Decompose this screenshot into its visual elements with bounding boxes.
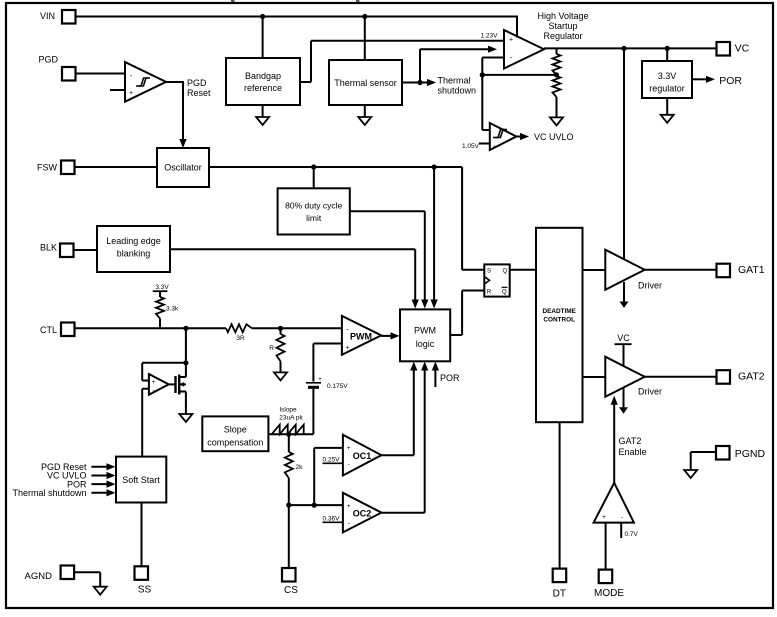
- svg-text:Driver: Driver: [638, 387, 662, 397]
- pin MODE: [594, 570, 624, 599]
- wire 80pct to PWM logic: [350, 211, 429, 308]
- label 2k: [296, 464, 304, 471]
- svg-text:GAT2: GAT2: [619, 436, 642, 446]
- svg-text:80% duty cycle: 80% duty cycle: [285, 201, 342, 211]
- svg-text:-: -: [621, 514, 623, 521]
- svg-text:VC: VC: [735, 42, 750, 54]
- svg-text:Reset: Reset: [187, 88, 211, 98]
- svg-text:Q: Q: [502, 290, 507, 296]
- node R junction: [278, 326, 283, 331]
- svg-text:regulator: regulator: [649, 84, 685, 94]
- wire thermal to regulator input: [420, 46, 497, 83]
- wire VC UVLO output: [516, 133, 529, 140]
- svg-text:2k: 2k: [296, 464, 304, 471]
- label GAT2 Enable: [619, 436, 647, 457]
- block Oscillator: [157, 148, 209, 187]
- wire PWM logic output to latch R: [450, 291, 484, 336]
- svg-text:VIN: VIN: [40, 11, 55, 21]
- svg-text:Islope: Islope: [279, 407, 297, 414]
- resistor 2k: [285, 434, 293, 505]
- svg-text:MODE: MODE: [594, 588, 624, 599]
- svg-text:3.3V: 3.3V: [658, 71, 677, 81]
- ground below driver1: [620, 282, 629, 308]
- pin AGND: [25, 566, 75, 583]
- label POR: [719, 75, 742, 87]
- wire DT line: [559, 422, 561, 568]
- block DEADTIME CONTROL: [536, 228, 583, 422]
- flip-flop SR latch: [484, 264, 509, 296]
- wire FSW to oscillator: [75, 166, 158, 168]
- svg-text:R: R: [269, 345, 274, 352]
- ground below divider: [550, 117, 563, 125]
- block 80% duty cycle limit: [278, 188, 350, 234]
- label High Voltage Startup Regulator: [537, 11, 588, 41]
- wire PGD comparator reference stub: [110, 89, 125, 91]
- ground below driver2: [619, 388, 628, 414]
- svg-text:+: +: [509, 37, 513, 44]
- label PGD Reset input: [41, 462, 116, 472]
- svg-text:Q: Q: [502, 269, 507, 275]
- wire VIN rail: [76, 16, 518, 38]
- wire PGD Reset: [166, 81, 187, 148]
- wire BLK to blanking: [74, 249, 98, 251]
- amplifier driver2: [605, 357, 644, 397]
- block Leading edge blanking: [97, 226, 170, 272]
- node VC-33reg junction: [665, 46, 670, 51]
- wire deadtime to driver2: [583, 376, 606, 378]
- comparator OC1: [343, 435, 382, 476]
- label 0.36V: [323, 516, 343, 523]
- svg-text:VC UVLO: VC UVLO: [534, 132, 574, 142]
- svg-text:GAT1: GAT1: [738, 264, 765, 276]
- svg-text:SS: SS: [138, 584, 152, 595]
- svg-text:reference: reference: [244, 83, 282, 93]
- pin VIN: [40, 10, 76, 24]
- svg-text:CTL: CTL: [40, 325, 57, 335]
- pin PGND: [716, 446, 765, 460]
- wire latch Q to deadtime: [510, 269, 536, 271]
- wire PWM comparator output: [381, 332, 399, 339]
- wire mosfet drain: [185, 363, 187, 377]
- svg-text:POR: POR: [440, 373, 460, 383]
- svg-text:CONTROL: CONTROL: [543, 317, 575, 324]
- resistor divider upper: [553, 48, 561, 75]
- svg-text:R: R: [487, 290, 492, 296]
- wire regulator output VC rail: [544, 47, 717, 49]
- wire CTL to buffer: [142, 328, 188, 380]
- resistor R: [277, 328, 285, 372]
- wire bandgap 1.23V to regulator: [300, 41, 504, 82]
- wire CS pin line: [288, 505, 290, 568]
- resistor 3.3k: [156, 297, 164, 328]
- ground below R: [274, 372, 287, 380]
- svg-text:23uA pk: 23uA pk: [279, 414, 303, 421]
- svg-text:GAT2: GAT2: [738, 371, 765, 383]
- svg-text:1.23V: 1.23V: [481, 32, 499, 39]
- wire PGND to ground: [684, 452, 716, 478]
- pin BLK: [40, 243, 74, 258]
- svg-text:PWM: PWM: [350, 332, 372, 342]
- wire PGD to comparator: [76, 73, 126, 75]
- label 0.25V: [323, 457, 343, 464]
- svg-text:BLK: BLK: [40, 243, 57, 253]
- label 3.3k: [166, 306, 179, 313]
- svg-text:Slope: Slope: [224, 425, 247, 435]
- svg-text:+: +: [602, 514, 606, 521]
- block 3.3V regulator: [642, 61, 692, 98]
- block Slope compensation: [202, 416, 268, 451]
- label 1.23V: [481, 32, 499, 39]
- node oscillator-pwmlogic junction: [431, 164, 438, 308]
- pin DT: [553, 569, 567, 600]
- pin VC: [717, 42, 750, 56]
- wire OC1 output: [381, 362, 417, 456]
- comparator VC UVLO: [490, 123, 517, 151]
- svg-text:0.25V: 0.25V: [323, 457, 341, 464]
- svg-text:AGND: AGND: [25, 571, 53, 582]
- transistor Q1 mosfet: [176, 375, 186, 395]
- svg-text:High Voltage: High Voltage: [537, 11, 588, 21]
- op-amp buffer: [149, 374, 169, 395]
- node VIN-thermal junction: [362, 14, 367, 60]
- comparator OC2: [343, 493, 382, 533]
- wire POR output: [692, 76, 715, 83]
- svg-text:Bandgap: Bandgap: [245, 71, 281, 81]
- battery 0.175V offset: [306, 377, 322, 434]
- svg-text:Driver: Driver: [638, 281, 662, 291]
- svg-text:Thermal: Thermal: [438, 76, 471, 86]
- node CTL-buffer junction: [183, 326, 188, 331]
- wire VC to driver1: [623, 48, 625, 259]
- pin CTL: [40, 323, 75, 337]
- wire divider to VC UVLO: [482, 75, 490, 130]
- node divider mid: [554, 72, 559, 77]
- svg-text:3.3k: 3.3k: [166, 306, 179, 313]
- node oscillator-80pct junction: [311, 164, 316, 188]
- svg-text:Leading edge: Leading edge: [106, 236, 161, 246]
- svg-text:0.36V: 0.36V: [323, 516, 341, 523]
- comparator U1 PGD hysteresis: [125, 62, 166, 102]
- svg-text:compensation: compensation: [207, 438, 263, 448]
- op-amp HV startup regulator: [504, 30, 544, 69]
- pin GAT1: [717, 264, 765, 278]
- svg-text:3R: 3R: [236, 335, 245, 342]
- svg-text:PGD: PGD: [187, 78, 207, 88]
- label Thermal shutdown: [438, 76, 477, 96]
- svg-text:Oscillator: Oscillator: [164, 163, 202, 173]
- node VIN-bandgap junction: [260, 14, 265, 58]
- label Islope 23uA pk: [279, 407, 303, 422]
- svg-text:+: +: [493, 145, 496, 151]
- svg-text:PGND: PGND: [735, 448, 766, 460]
- wire driver2 to GAT2: [645, 376, 717, 378]
- wire soft start to SS pin: [141, 503, 143, 567]
- ground below thermal sensor: [358, 105, 371, 125]
- wire slope comp output: [268, 433, 313, 435]
- svg-text:POR: POR: [719, 75, 742, 87]
- svg-text:-: -: [348, 462, 350, 469]
- svg-text:+: +: [347, 503, 351, 510]
- svg-text:VC: VC: [617, 333, 630, 343]
- block Soft Start: [116, 457, 166, 503]
- label VC UVLO input: [47, 471, 116, 481]
- block Thermal sensor: [329, 60, 402, 105]
- wire thermal sensor output: [402, 79, 436, 86]
- svg-text:+: +: [345, 345, 349, 352]
- wire oscillator output: [209, 167, 484, 270]
- svg-text:3.3V: 3.3V: [155, 284, 169, 291]
- top crop artifact: [231, 0, 360, 2]
- svg-text:1.05V: 1.05V: [462, 143, 480, 150]
- svg-text:OC1: OC1: [353, 451, 372, 461]
- svg-text:+: +: [347, 445, 351, 452]
- wire CTL line: [75, 327, 227, 329]
- svg-text:+: +: [318, 377, 322, 383]
- ground below 3.3V regulator: [661, 98, 674, 123]
- svg-text:+: +: [152, 380, 156, 386]
- label R: [269, 345, 274, 352]
- wire CS node to OC2: [289, 504, 343, 506]
- wire buffer inverting to soft start: [142, 389, 149, 457]
- resistor divider lower: [553, 76, 561, 117]
- wire MODE pin to comparator: [605, 523, 607, 570]
- svg-text:logic: logic: [416, 339, 435, 349]
- svg-text:0.7V: 0.7V: [625, 531, 639, 538]
- wire divider feedback: [480, 58, 557, 78]
- pin PGD: [38, 54, 75, 80]
- svg-text:blanking: blanking: [117, 249, 151, 259]
- svg-text:Thermal sensor: Thermal sensor: [334, 78, 397, 88]
- sawtooth current source: [272, 425, 304, 435]
- svg-text:limit: limit: [306, 213, 322, 223]
- node CS junction: [286, 503, 291, 508]
- label Driver (GAT2): [638, 387, 662, 397]
- wire driver1 to GAT1: [645, 269, 717, 271]
- wire buffer output to gate: [169, 383, 176, 385]
- label POR input: [67, 479, 116, 489]
- pin FSW: [37, 161, 75, 175]
- node OC1 tap junction: [312, 448, 343, 508]
- label POR input: [432, 362, 460, 388]
- svg-text:Regulator: Regulator: [543, 31, 582, 41]
- supply 3.3V rail: [153, 284, 170, 297]
- svg-text:+: +: [129, 90, 133, 97]
- label Thermal shutdown input: [12, 488, 115, 498]
- wire AGND to ground: [74, 572, 107, 594]
- pin GAT2: [717, 370, 765, 384]
- svg-text:-: -: [153, 388, 155, 394]
- comparator PWM: [342, 316, 381, 355]
- supply VC for driver2: [615, 333, 632, 366]
- label Driver (GAT1): [638, 281, 662, 291]
- svg-text:Soft Start: Soft Start: [122, 475, 160, 485]
- svg-text:CS: CS: [284, 585, 298, 596]
- wire VC to 3.3V regulator: [666, 48, 668, 61]
- comparator MODE: [594, 483, 634, 523]
- svg-text:Enable: Enable: [619, 447, 647, 457]
- svg-text:-: -: [348, 520, 350, 527]
- label 0.7V reference: [621, 523, 638, 538]
- wire blanking to PWM logic: [170, 249, 419, 308]
- amplifier driver1: [605, 250, 644, 290]
- pin CS: [282, 568, 298, 596]
- label 0.175V: [327, 383, 348, 390]
- wire mosfet source to ground: [179, 392, 192, 423]
- label 1.05V: [462, 143, 490, 150]
- ground below bandgap: [256, 105, 269, 125]
- svg-text:OC2: OC2: [353, 509, 372, 519]
- resistor 3R: [226, 324, 252, 342]
- svg-text:Thermal shutdown: Thermal shutdown: [12, 488, 86, 498]
- label PGD Reset: [187, 78, 211, 98]
- wire OC2 output: [381, 362, 428, 513]
- svg-text:shutdown: shutdown: [438, 86, 477, 96]
- svg-text:DT: DT: [553, 588, 566, 599]
- svg-text:DEADTIME: DEADTIME: [543, 308, 577, 315]
- svg-text:PWM: PWM: [414, 326, 436, 336]
- svg-text:0.175V: 0.175V: [327, 383, 348, 390]
- node slope-2k junction: [286, 432, 291, 437]
- wire deadtime to driver1: [583, 269, 606, 271]
- pin SS: [135, 566, 152, 595]
- wire PWM noninverting input: [313, 344, 342, 382]
- label VC UVLO: [534, 132, 574, 142]
- node VC-driver junction: [621, 46, 626, 51]
- svg-text:PGD: PGD: [38, 54, 58, 64]
- svg-text:FSW: FSW: [37, 163, 58, 173]
- svg-text:S: S: [487, 269, 491, 275]
- wire 3R to comparator: [252, 327, 342, 329]
- svg-text:Startup: Startup: [548, 21, 577, 31]
- wire GAT2 enable: [611, 396, 618, 483]
- block PWM logic: [400, 309, 450, 361]
- block Bandgap reference: [226, 58, 300, 105]
